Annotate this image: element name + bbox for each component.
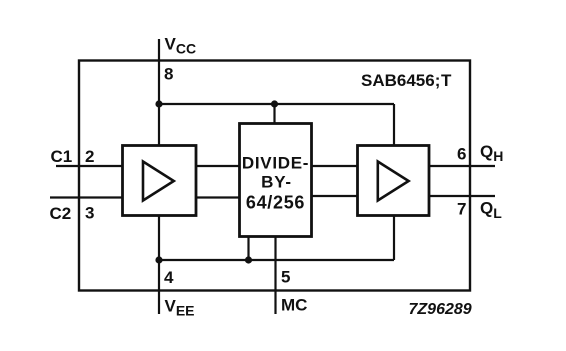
wire QH output line pin 6: [429, 165, 495, 167]
wire divider to amp A2 upper: [311, 165, 357, 167]
wire amp A1 bottom / VEE pin 4 vertical: [158, 216, 160, 314]
node junction VEE rail / amp A1: [155, 256, 162, 263]
svg-text:C1: C1: [51, 147, 73, 166]
svg-text:3: 3: [85, 204, 94, 223]
node junction VEE rail / divider: [245, 256, 252, 263]
wire divider top supply: [273, 104, 275, 123]
node junction VCC rail / amp A1: [155, 100, 162, 107]
svg-text:64/256: 64/256: [246, 193, 305, 213]
wire VEE bottom rail: [159, 259, 394, 261]
wire divider to amp A2 lower: [311, 195, 357, 197]
wire amp A2 top supply: [393, 104, 395, 146]
svg-text:7Z96289: 7Z96289: [409, 301, 472, 318]
wire VCC top rail: [159, 103, 394, 105]
svg-text:BY-: BY-: [261, 173, 292, 192]
svg-text:7: 7: [457, 200, 466, 219]
svg-text:C2: C2: [50, 204, 72, 223]
wire C1 input line: [56, 165, 123, 167]
svg-text:4: 4: [164, 268, 174, 287]
wire amp A1 to divider upper: [196, 165, 240, 167]
IC boundary box: [79, 61, 470, 291]
node junction VCC rail / divider: [271, 100, 278, 107]
svg-text:6: 6: [457, 145, 466, 164]
svg-text:2: 2: [85, 147, 94, 166]
svg-text:SAB6456;: SAB6456;: [361, 71, 440, 90]
amplifier A1 triangle: [143, 162, 174, 201]
wire VCC pin 8 vertical: [158, 39, 160, 145]
wire MC pin 5 vertical: [274, 237, 276, 314]
divider block box: [240, 124, 312, 237]
wire amp A2 bottom supply: [393, 216, 395, 260]
wire amp A1 to divider lower: [196, 196, 240, 198]
svg-text:DIVIDE-: DIVIDE-: [242, 154, 309, 173]
svg-text:MC: MC: [281, 296, 307, 315]
svg-text:8: 8: [164, 65, 173, 84]
amplifier A1 box: [123, 146, 197, 216]
amplifier A2 triangle: [378, 162, 409, 201]
amplifier A2 box: [358, 146, 430, 216]
svg-text:T: T: [441, 71, 452, 90]
wire C2 input line: [50, 196, 123, 198]
svg-text:5: 5: [281, 268, 290, 287]
wire divider bottom supply: [247, 237, 249, 260]
wire QL output line pin 7: [429, 195, 495, 197]
